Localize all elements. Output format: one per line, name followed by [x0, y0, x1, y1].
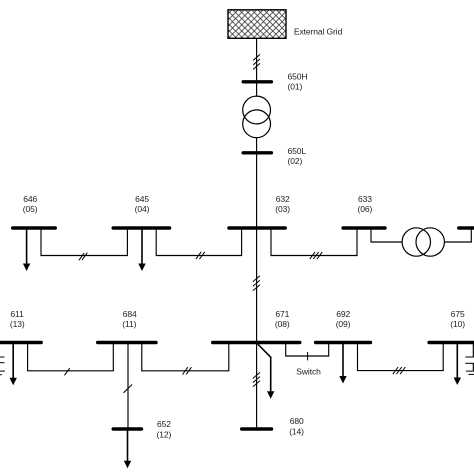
svg-text:(03): (03): [275, 204, 290, 214]
svg-text:652: 652: [157, 419, 171, 429]
load arrow at bus 645: [138, 228, 145, 271]
bus 650L: [243, 151, 271, 154]
load arrow at bus 611: [10, 343, 17, 386]
bus 671: [213, 341, 300, 344]
phase marks (2) on line 632-645: [196, 252, 205, 259]
phase marks (2) on line 645-646: [79, 253, 88, 261]
label 652 (12): [157, 419, 172, 439]
bus 692: [316, 341, 371, 344]
wire: bus 633 to transformer T2: [371, 228, 402, 242]
bus 650H: [243, 80, 271, 83]
wire: transformer T2 to bus 634: [444, 228, 471, 242]
transformer T1: [243, 96, 271, 138]
wire: bus 650H to transformer T1: [256, 82, 258, 96]
wire: bus 671 to switch: [286, 343, 308, 357]
svg-text:(08): (08): [275, 319, 290, 329]
label 671 (08): [275, 309, 290, 329]
svg-text:(01): (01): [288, 82, 303, 92]
wire: transformer T1 to bus 650L: [256, 138, 258, 153]
label 650L (02): [288, 146, 307, 166]
phase marks (3) on line 671-680: [253, 372, 260, 386]
label 675 (10): [450, 309, 465, 329]
bus 634: [459, 226, 474, 229]
phase mark (1) on line 684-611: [64, 368, 69, 375]
bus 645: [113, 226, 169, 229]
bus 646: [13, 226, 56, 229]
bus 684: [98, 341, 156, 344]
svg-text:External Grid: External Grid: [294, 26, 343, 36]
wire: bus 632 to bus 671 (main feeder): [256, 228, 258, 343]
wire: bus 684 to bus 611: [28, 343, 114, 371]
svg-text:671: 671: [275, 309, 289, 319]
label 684 (11): [122, 309, 137, 329]
phase marks (3) on line 632-633: [310, 252, 323, 259]
wire: bus 671 to bus 684: [142, 343, 229, 371]
load arrow at bus 652: [124, 429, 131, 468]
load arrow at bus 675: [454, 343, 461, 386]
load arrow at bus 692: [339, 343, 346, 384]
wire: bus 632 to bus 645: [156, 228, 241, 256]
phase marks (2) on line 671-684: [183, 367, 192, 374]
shunt capacitor at bus 675: [465, 343, 474, 375]
wire: switch to bus 692: [308, 343, 329, 357]
label 650H (01): [288, 71, 308, 91]
wire: bus 650L to bus 632: [256, 153, 258, 228]
bus 611: [0, 341, 41, 344]
svg-text:(02): (02): [288, 156, 303, 166]
svg-text:650L: 650L: [288, 146, 307, 156]
load arrow at bus 646: [23, 228, 30, 271]
svg-text:675: 675: [451, 309, 465, 319]
svg-text:645: 645: [135, 194, 149, 204]
wire: bus 645 to bus 646: [41, 228, 127, 256]
svg-text:(11): (11): [122, 319, 136, 329]
svg-text:611: 611: [10, 309, 24, 319]
svg-text:692: 692: [336, 309, 350, 319]
svg-text:632: 632: [276, 194, 290, 204]
label 645 (04): [135, 194, 150, 214]
wire: bus 684 to bus 652: [127, 343, 129, 430]
load arrow at bus 671: [258, 344, 275, 399]
svg-text:(10): (10): [450, 319, 465, 329]
svg-text:Switch: Switch: [296, 367, 321, 377]
svg-text:(14): (14): [289, 426, 304, 436]
svg-text:(13): (13): [10, 319, 25, 329]
external grid symbol: [228, 10, 286, 39]
svg-text:650H: 650H: [288, 71, 308, 81]
svg-text:(12): (12): [157, 429, 172, 439]
label 646 (05): [23, 194, 38, 214]
bus 680: [242, 427, 272, 430]
phase marks (3) on line 632-671: [253, 276, 260, 291]
label 692 (09): [336, 309, 351, 329]
label 680 (14): [289, 416, 304, 436]
label 611 (13): [10, 309, 25, 329]
bus 675: [429, 341, 474, 344]
phase marks (3) on grid feeder wire: [253, 54, 260, 69]
bus 652: [113, 427, 141, 430]
bus 633: [343, 226, 385, 229]
svg-text:(05): (05): [23, 204, 38, 214]
label 632 (03): [275, 194, 290, 214]
phase mark (1) on line 684-652: [124, 385, 133, 393]
phase marks (3) on line 692-675: [393, 367, 406, 374]
switch S1: [307, 352, 309, 360]
wire: bus 632 to bus 633: [271, 228, 357, 256]
svg-text:633: 633: [358, 194, 372, 204]
svg-text:684: 684: [123, 309, 137, 319]
shunt capacitor at bus 611: [0, 343, 5, 375]
svg-text:680: 680: [290, 416, 304, 426]
label 633 (06): [358, 194, 373, 214]
transformer T2: [402, 228, 444, 256]
svg-text:(09): (09): [336, 319, 351, 329]
svg-text:(06): (06): [358, 204, 373, 214]
wire: bus 692 to bus 675: [358, 343, 444, 371]
bus 632: [229, 226, 285, 229]
svg-text:(04): (04): [135, 204, 150, 214]
wire: bus 671 to bus 680 (main feeder): [256, 343, 258, 430]
wire: external grid to bus 650H: [256, 38, 258, 80]
svg-text:646: 646: [23, 194, 37, 204]
